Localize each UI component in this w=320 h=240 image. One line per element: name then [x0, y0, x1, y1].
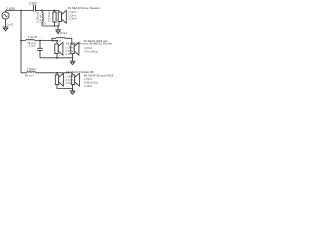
node ground G2 junction [57, 25, 59, 27]
svg-text:#2 SEAS W-cone W18E001 Woofer: #2 SEAS W-cone W18E001 Woofer [66, 42, 112, 46]
voltage source V1 [2, 12, 9, 19]
svg-text:39 mO: 39 mO [38, 13, 42, 23]
wire top rail [6, 10, 60, 12]
svg-text:3.3uF: 3.3uF [29, 44, 36, 48]
svg-text:0.5 Ohm: 0.5 Ohm [65, 78, 75, 82]
svg-text:1.5mH: 1.5mH [26, 68, 36, 72]
wire bottom return [57, 85, 73, 91]
node R1 top junction [54, 10, 56, 12]
svg-text:2 Ohm: 2 Ohm [65, 81, 73, 85]
wire source bottom lead [5, 19, 7, 27]
node L3 split junction [51, 40, 53, 42]
node S4 feed junction [56, 72, 58, 74]
svg-text:2 Ohm: 2 Ohm [65, 49, 73, 53]
svg-text:2 Ohm: 2 Ohm [68, 10, 77, 14]
svg-text:3 Ohm: 3 Ohm [84, 46, 93, 50]
inductor L2 (series, mid) [26, 39, 35, 40]
node R1 bottom junction [54, 25, 56, 27]
wire S3 drop [71, 38, 73, 44]
ground G1 [3, 27, 9, 31]
speaker S4 [55, 73, 63, 86]
node L1 top junction [41, 10, 43, 12]
svg-text:#5 SEAS W-cone W18: #5 SEAS W-cone W18 [84, 74, 114, 78]
speaker S5 [71, 73, 79, 86]
svg-text:1.0mH: 1.0mH [28, 35, 37, 39]
svg-text:2 Ohm: 2 Ohm [65, 74, 73, 78]
svg-text:1mO: 1mO [7, 22, 14, 26]
capacitor C1 [33, 5, 35, 12]
ground G3 [70, 61, 76, 65]
wire left vertical rail [20, 11, 22, 73]
capacitor C2 (shunt) [37, 41, 43, 58]
inductor L4 (series, bottom) [27, 72, 36, 73]
ground G2 [55, 30, 61, 34]
svg-text:2.83V: 2.83V [6, 7, 16, 11]
svg-text:1.5uF: 1.5uF [29, 2, 37, 6]
inductor L3 (series, mid second) [56, 37, 65, 38]
node S2 return junction [56, 57, 58, 59]
node ground G3 junction [72, 57, 74, 59]
speaker S3 [71, 42, 79, 55]
svg-text:98 mO: 98 mO [25, 74, 34, 78]
speaker S1 tweeter [58, 10, 66, 23]
wire S5 drop [71, 73, 73, 75]
svg-text:#1 SEAS Dome Tweeter: #1 SEAS Dome Tweeter [68, 6, 100, 10]
node rail mid junction [20, 40, 22, 42]
svg-text:3.3 Ohm: 3.3 Ohm [47, 10, 51, 21]
wire S4 stub [56, 73, 58, 75]
resistor R1 (shunt box) [53, 12, 56, 22]
node S2 feed junction [56, 40, 58, 42]
node rail top junction [20, 10, 22, 12]
node C2 top junction [39, 40, 41, 42]
inductor L1 (shunt, vertical) [42, 12, 43, 22]
svg-text:2 Ohm: 2 Ohm [65, 52, 73, 56]
svg-text:2 Ohm: 2 Ohm [84, 84, 93, 88]
wire bottom feed [21, 72, 72, 74]
svg-text:3O: 3O [42, 22, 46, 26]
node ground G4 junction [72, 88, 74, 90]
svg-text:1.5mH: 1.5mH [58, 31, 67, 35]
svg-text:2 Ohm: 2 Ohm [68, 17, 77, 21]
svg-text:2 Ohm: 2 Ohm [65, 45, 73, 49]
wire tweeter branch stubs [42, 11, 59, 27]
wire source top lead [5, 11, 7, 13]
wire middle return [40, 54, 73, 61]
wire middle feed [21, 38, 72, 40]
svg-text:2 Ohm: 2 Ohm [68, 13, 77, 17]
svg-text:3.5 mOhms: 3.5 mOhms [84, 49, 99, 53]
svg-text:0.98 mOhm: 0.98 mOhm [84, 81, 99, 85]
wire tweeter return [42, 26, 59, 30]
ground G4 [70, 91, 76, 95]
wire S2 feed stub [56, 41, 58, 44]
svg-text:2 Ohm: 2 Ohm [84, 77, 93, 81]
speaker S2 [55, 42, 63, 55]
